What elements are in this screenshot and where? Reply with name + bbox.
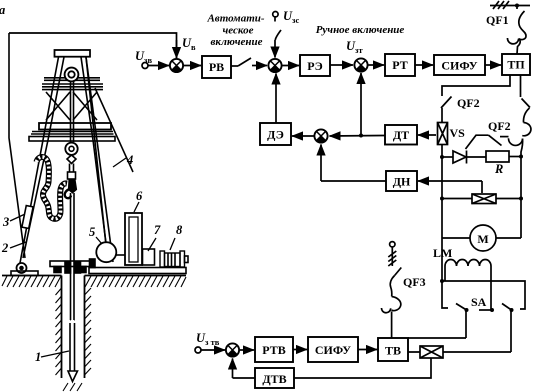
svg-text:VS: VS [450, 126, 466, 140]
svg-text:ДТВ: ДТВ [262, 372, 286, 386]
svg-text:R: R [494, 162, 503, 176]
svg-text:QF2: QF2 [457, 96, 480, 110]
svg-text:РТВ: РТВ [262, 343, 285, 357]
svg-text:ческое: ческое [223, 24, 254, 36]
svg-text:РВ: РВ [209, 60, 224, 74]
svg-text:включение: включение [210, 36, 262, 48]
svg-text:РТ: РТ [392, 58, 407, 72]
svg-text:8: 8 [176, 223, 183, 237]
svg-text:1: 1 [35, 350, 41, 364]
svg-text:4: 4 [126, 153, 133, 167]
svg-text:ДТ: ДТ [393, 128, 409, 142]
svg-text:СИФУ: СИФУ [315, 343, 351, 357]
svg-text:ТП: ТП [507, 58, 525, 72]
svg-text:РЭ: РЭ [307, 59, 322, 73]
svg-text:QF3: QF3 [403, 275, 426, 289]
svg-text:2: 2 [1, 241, 8, 255]
svg-text:SA: SA [471, 295, 487, 309]
svg-text:Автомати-: Автомати- [206, 13, 264, 25]
svg-text:LM: LM [433, 246, 452, 260]
svg-text:ДЭ: ДЭ [267, 128, 284, 142]
svg-text:7: 7 [154, 223, 161, 237]
svg-text:6: 6 [136, 189, 143, 203]
svg-text:М: М [477, 232, 488, 246]
svg-text:ТВ: ТВ [385, 344, 401, 358]
svg-text:СИФУ: СИФУ [441, 59, 477, 73]
svg-text:ДН: ДН [393, 175, 411, 189]
svg-text:5: 5 [89, 225, 95, 239]
svg-text:QF2: QF2 [488, 119, 511, 133]
svg-text:3: 3 [2, 215, 9, 229]
svg-text:QF1: QF1 [486, 13, 509, 27]
svg-text:Ручное включение: Ручное включение [316, 24, 405, 36]
svg-text:а: а [0, 3, 5, 17]
